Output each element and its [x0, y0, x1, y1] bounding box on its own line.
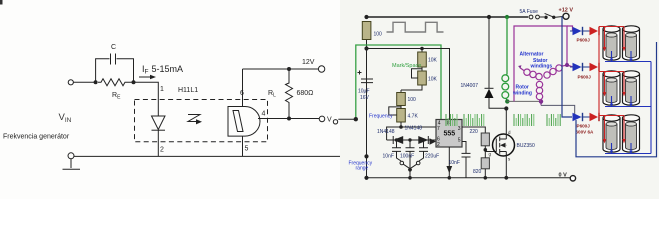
resistor 820 — [481, 158, 489, 169]
svg-text:10K: 10K — [428, 77, 438, 83]
MOSFET BUZ350 — [493, 134, 515, 156]
blue link bus — [650, 62, 652, 154]
svg-text:16V: 16V — [360, 95, 370, 101]
node rotor bottom (green) — [505, 99, 509, 103]
svg-text:2: 2 — [437, 142, 440, 148]
svg-text:100: 100 — [374, 32, 383, 38]
node — [364, 176, 368, 180]
svg-text:220uF: 220uF — [425, 154, 439, 160]
svg-text:2: 2 — [160, 147, 164, 154]
wire red + row1 — [599, 27, 624, 49]
blue return wire — [576, 42, 657, 157]
svg-text:winding: winding — [512, 91, 532, 97]
capacitor 10uF — [361, 79, 373, 83]
stator phase stubs — [520, 65, 567, 102]
source wire — [505, 156, 507, 178]
svg-text:V: V — [327, 117, 332, 124]
node — [408, 138, 411, 141]
svg-text:0 V: 0 V — [559, 173, 568, 179]
svg-text:10nF: 10nF — [383, 154, 394, 160]
svg-text:10μF: 10μF — [358, 89, 370, 95]
bottom rail — [367, 177, 571, 179]
wire — [242, 69, 244, 107]
diode 1N4148 right — [418, 136, 428, 144]
timing capacitor 100nF — [409, 140, 411, 170]
green net wire — [356, 45, 441, 120]
resistor RL — [286, 69, 293, 119]
pin1 wire with arrow — [448, 147, 450, 178]
RIGHT_SCHEMATIC — [338, 0, 659, 199]
svg-text:10nF: 10nF — [449, 160, 460, 166]
battery bank — [576, 26, 657, 157]
node — [487, 15, 491, 19]
green node — [354, 117, 358, 121]
LED D1 — [152, 116, 166, 130]
node — [395, 138, 398, 141]
rotor winding coil — [502, 74, 509, 101]
svg-text:5: 5 — [245, 146, 249, 153]
svg-text:C: C — [111, 44, 116, 51]
node drain — [504, 106, 508, 110]
diode D-blue row3 — [562, 116, 570, 118]
input terminal — [68, 80, 73, 85]
svg-text:555: 555 — [444, 131, 456, 138]
node C — [287, 67, 291, 71]
stator wiring (purple) — [514, 26, 573, 102]
VO terminal — [319, 116, 325, 122]
svg-text:P600J: P600J — [577, 124, 591, 129]
svg-text:100nF: 100nF — [400, 154, 414, 160]
svg-text:P600J: P600J — [578, 75, 592, 80]
timing capacitor 220uF — [419, 140, 424, 161]
svg-text:BUZ350: BUZ350 — [517, 143, 536, 149]
wire blue - row3 — [605, 143, 651, 154]
resistor 10K — [418, 52, 427, 67]
light arrow — [188, 115, 200, 122]
12V terminal — [318, 66, 324, 72]
gate wire — [485, 151, 496, 153]
wire blue - row1 — [605, 51, 651, 62]
red + bus — [598, 27, 600, 118]
battery cells row1 — [603, 29, 620, 60]
svg-text:P600J: P600J — [577, 38, 591, 43]
photodetector U1 — [228, 107, 260, 137]
svg-text:Frequency: Frequency — [369, 114, 393, 120]
node B — [132, 80, 136, 84]
resistor 100 freq — [397, 93, 406, 106]
svg-text:range: range — [356, 166, 369, 172]
rotor wire (green) — [506, 17, 508, 74]
svg-text:1: 1 — [160, 86, 164, 93]
top rail +12 — [367, 16, 529, 18]
wire red + row2 — [599, 72, 624, 94]
rectifier row 2 — [570, 63, 599, 80]
diode D-blue row1 — [570, 30, 573, 32]
green pwm bursts — [446, 114, 560, 126]
+12V terminal — [563, 13, 569, 19]
wire phase3 to rectifier — [541, 105, 575, 117]
left rail — [366, 40, 368, 178]
mark/space chain wire — [401, 49, 422, 93]
svg-text:H11L1: H11L1 — [178, 87, 198, 94]
ground terminal — [68, 153, 74, 159]
svg-text:Mark/Space: Mark/Space — [392, 63, 421, 69]
svg-text:680Ω: 680Ω — [297, 90, 314, 97]
svg-text:1N4148: 1N4148 — [377, 129, 395, 135]
svg-text:820: 820 — [473, 169, 482, 175]
diode 1N4007 — [489, 17, 506, 108]
square waveform — [387, 22, 444, 32]
IC 555 — [436, 120, 462, 148]
optocoupler H11L1 dashed box — [135, 100, 268, 142]
node — [364, 46, 368, 50]
wire phase1 feed — [567, 26, 573, 31]
dc bus (navy) — [562, 16, 572, 117]
current arrow IF — [139, 76, 151, 78]
wire output — [258, 118, 319, 120]
node — [408, 168, 412, 172]
stator frame wire — [514, 26, 567, 101]
svg-text:100: 100 — [408, 97, 417, 103]
svg-text:windings: windings — [530, 64, 553, 70]
0V terminal — [570, 176, 575, 181]
potentiometer 10K mark/space — [418, 71, 427, 85]
pin3 wire — [462, 127, 485, 133]
node — [364, 15, 368, 19]
fuse F1 — [529, 15, 533, 19]
diode row wire — [387, 139, 436, 141]
node phase2 (purple) — [565, 63, 569, 67]
pin2 trigger arrow — [430, 138, 437, 144]
svg-text:Alternator: Alternator — [520, 52, 544, 58]
node D — [287, 117, 291, 121]
bottom wire — [74, 155, 367, 157]
wire — [96, 59, 134, 83]
svg-text:10K: 10K — [428, 58, 438, 64]
wire — [134, 82, 159, 116]
potentiometer 4.7K — [397, 109, 406, 123]
svg-text:3: 3 — [458, 126, 461, 132]
node A — [94, 80, 98, 84]
diode 1N4148 left — [393, 136, 403, 144]
wire — [73, 81, 95, 83]
node stator bottom (purple) — [539, 99, 543, 103]
wire vcc feed — [367, 49, 450, 120]
svg-text:220: 220 — [470, 129, 479, 135]
resistor RE — [98, 79, 132, 86]
svg-text:7: 7 — [437, 126, 440, 132]
node rotor+12 (green) — [505, 15, 509, 19]
wire VO link — [338, 118, 356, 120]
node — [364, 154, 368, 158]
LEFT_SCHEMATIC — [3, 44, 367, 169]
svg-text:1N4007: 1N4007 — [461, 83, 479, 89]
resistor 100 — [362, 22, 371, 40]
selector jumpers — [400, 161, 404, 165]
resistor 220 — [481, 133, 489, 146]
svg-text:600V 6A: 600V 6A — [576, 130, 595, 135]
stator arrows (purple) — [518, 63, 569, 105]
wire red + row3 — [599, 116, 624, 141]
wire 12V rail — [243, 68, 319, 70]
capacitor C — [111, 54, 116, 65]
timing capacitor 10nF — [397, 140, 402, 161]
svg-text:4.7K: 4.7K — [408, 114, 419, 120]
wire blue - row2 — [605, 96, 651, 107]
battery cells row2 — [603, 74, 620, 105]
rectifier row 1 — [567, 26, 599, 43]
wire pin7 — [387, 122, 436, 140]
node gate — [484, 148, 488, 152]
battery cells row3 — [603, 118, 620, 152]
node — [408, 176, 412, 180]
rectifier row 3 — [562, 113, 599, 135]
wire — [242, 136, 244, 156]
drain wire — [505, 109, 507, 137]
stator coil right — [556, 65, 562, 71]
corner artifact — [0, 0, 3, 5]
svg-text:+12 V: +12 V — [559, 8, 574, 14]
svg-text:12V: 12V — [302, 59, 315, 66]
diode D-blue row2 — [570, 66, 573, 68]
pin5 cap 10nF — [462, 142, 466, 178]
stator coil left — [524, 69, 530, 75]
stator coil bottom — [536, 81, 542, 87]
phase 2 link — [567, 65, 573, 67]
svg-text:5A Fuse: 5A Fuse — [520, 9, 539, 15]
svg-text:1N4148: 1N4148 — [405, 126, 423, 132]
wire rotor to stator node — [507, 100, 541, 102]
svg-text:4: 4 — [262, 111, 266, 118]
svg-text:Frekvencia generátor: Frekvencia generátor — [3, 134, 70, 141]
svg-text:5: 5 — [458, 138, 461, 144]
